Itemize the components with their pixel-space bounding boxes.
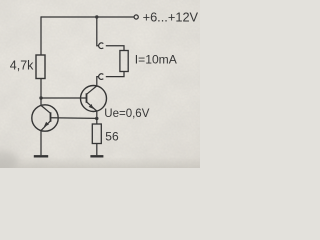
node B (junction dot) [95, 117, 98, 120]
connector (top, socket arc) [99, 43, 104, 49]
emitter diagonal [41, 121, 51, 131]
terminal +supply (open circle) [134, 15, 138, 19]
wire: junction B to T1 base [51, 117, 97, 120]
node supply junction dot [95, 15, 98, 18]
bottom edge shading [0, 157, 200, 168]
wire: top load lead to resistor I [106, 46, 124, 51]
collector diagonal [87, 86, 97, 94]
wire: top supply rail [41, 16, 134, 18]
svg-text:Ue=0,6V: Ue=0,6V [104, 108, 149, 120]
svg-text:56: 56 [105, 130, 119, 144]
wire: T2 emitter to junction B [96, 111, 98, 119]
bottom-left corner smudge [0, 151, 18, 171]
wire: resistor bottom to bottom connector [106, 72, 124, 77]
wire: left vertical from rail to R 4,7k [40, 16, 42, 55]
resistor R 4,7k [36, 55, 45, 79]
ground (T1 emitter) [34, 155, 48, 157]
wire: R 56 to ground [96, 144, 98, 156]
wire: junction A down to T1 collector [40, 98, 42, 106]
wire: main vertical from rail to top connector [97, 17, 99, 46]
wire: bottom connector to T2 collector [97, 77, 99, 86]
resistor load I=10mA [120, 51, 128, 72]
paper background [0, 0, 200, 168]
wire: R 4,7k to junction A [40, 79, 42, 99]
base bar [50, 112, 52, 122]
emitter arrow [43, 122, 49, 129]
wire: junction A to T2 base [41, 97, 87, 99]
ground (R 56) [90, 155, 103, 157]
svg-text:+6...+12V: +6...+12V [143, 10, 199, 25]
emitter diagonal [87, 102, 97, 111]
svg-text:4,7k: 4,7k [10, 58, 34, 72]
node A (junction dot) [39, 96, 42, 99]
transistor T2 (right, NPN, base on left) [81, 86, 107, 112]
base bar [86, 93, 88, 103]
transistor T1 (left, NPN, base on right) [32, 105, 58, 131]
emitter arrow [89, 104, 96, 110]
collector diagonal [41, 105, 51, 113]
resistor R 56 [92, 124, 101, 144]
connector (bottom, socket arc) [99, 74, 104, 80]
wire: junction B down to R 56 [96, 119, 98, 125]
svg-text:I=10mA: I=10mA [135, 53, 178, 67]
wire: T1 emitter to ground [40, 131, 42, 156]
